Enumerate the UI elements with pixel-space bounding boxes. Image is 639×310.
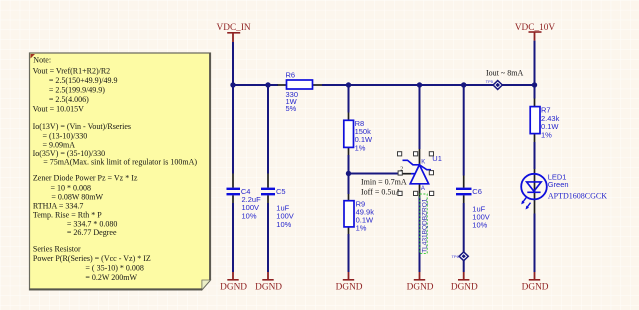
ground DGND (R9)	[336, 272, 363, 293]
wire VDC_10V vertical	[534, 41, 536, 85]
pin R9 top	[348, 194, 350, 201]
junction VDC_IN / C4	[230, 82, 235, 87]
svg-text:= 75mA(Max. sink limit of regu: = 75mA(Max. sink limit of regulator is 1…	[43, 157, 197, 166]
svg-text:RTHJA = 334.7: RTHJA = 334.7	[33, 202, 83, 211]
svg-text:K: K	[421, 160, 425, 166]
pin C6 bottom	[463, 195, 465, 203]
wire U1 branch upper	[419, 85, 421, 149]
wire C4 branch upper	[232, 85, 234, 174]
svg-text:DGND: DGND	[522, 283, 549, 293]
svg-text:= ( 35-10) * 0.008: = ( 35-10) * 0.008	[85, 264, 144, 273]
svg-text:APTD1608CGCK: APTD1608CGCK	[548, 192, 607, 201]
svg-text:Imin = 0.7mA: Imin = 0.7mA	[361, 178, 407, 187]
label U1 part number TL431BQDBZRQ1 (vertical, green)	[420, 194, 429, 254]
svg-text:DGND: DGND	[255, 283, 282, 293]
svg-text:= 10 * 0.008: = 10 * 0.008	[51, 183, 92, 192]
pin C5 top	[267, 174, 269, 188]
power port VDC_10V	[515, 23, 556, 41]
svg-text:DGND: DGND	[220, 283, 247, 293]
wire R8 to junction	[348, 155, 350, 174]
pin C6 top	[463, 176, 465, 188]
svg-text:Vout = Vref(R1+R2)/R2: Vout = Vref(R1+R2)/R2	[33, 66, 111, 75]
svg-text:Iout ~ 8mA: Iout ~ 8mA	[486, 68, 523, 77]
svg-text:1%: 1%	[356, 224, 367, 233]
svg-text:Ioff = 0.5uA: Ioff = 0.5uA	[361, 187, 401, 196]
svg-text:Power P(R(Series) = (Vcc - Vz): Power P(R(Series) = (Vcc - Vz) * IZ	[33, 254, 151, 263]
ground DGND (C4)	[220, 272, 247, 293]
svg-text:= (13-10)/330: = (13-10)/330	[43, 132, 88, 141]
capacitor C4	[227, 189, 241, 194]
svg-text:Series Resistor: Series Resistor	[33, 245, 81, 254]
pin U1 anode	[419, 184, 421, 197]
svg-text:Zener Diode Power Pz = Vz * Iz: Zener Diode Power Pz = Vz * Iz	[33, 174, 138, 183]
wire C6 branch upper	[463, 85, 465, 176]
junction R8	[346, 82, 351, 87]
svg-text:TP6: TP6	[451, 254, 459, 259]
note annotation (yellow sticky note)	[30, 53, 211, 290]
wire LED lower	[534, 214, 536, 273]
svg-text:1%: 1%	[541, 130, 552, 139]
svg-text:10%: 10%	[472, 221, 487, 230]
resistor R6	[287, 80, 313, 89]
svg-text:Green: Green	[548, 180, 569, 189]
wire main bus right segment	[322, 84, 535, 86]
svg-text:R6: R6	[286, 71, 296, 80]
wire R8 branch upper	[348, 85, 350, 113]
pin R6 left	[278, 84, 287, 86]
wire main bus left segment	[231, 84, 279, 86]
pin R7 top	[534, 99, 536, 107]
svg-text:DGND: DGND	[407, 283, 434, 293]
pin C4 top	[232, 174, 234, 188]
ground DGND (C5)	[255, 272, 282, 293]
wire C5 branch upper	[267, 85, 269, 174]
svg-text:Vout = 10.015V: Vout = 10.015V	[33, 105, 84, 114]
pin U1 ref (pin 2)	[402, 173, 411, 175]
wire C6 branch lower	[463, 203, 465, 272]
resistor R9	[344, 201, 354, 227]
capacitor C6	[456, 189, 472, 194]
svg-text:TL431BQDBZRQ1: TL431BQDBZRQ1	[421, 198, 428, 253]
power port VDC_IN	[217, 23, 251, 42]
wire R7 branch upper	[534, 85, 536, 99]
svg-text:= 2.5(150+49.9)/49.9: = 2.5(150+49.9)/49.9	[49, 76, 118, 85]
pin U1 cathode	[419, 149, 421, 165]
svg-text:TP5: TP5	[486, 79, 494, 84]
op-amp U1 TL431 shunt regulator symbol	[403, 160, 432, 184]
wire ref to U1	[349, 173, 403, 175]
svg-text:= 2.5(199.9/49.9): = 2.5(199.9/49.9)	[49, 86, 105, 95]
pin R9 bottom	[348, 227, 350, 234]
svg-text:= 26.77 Degree: = 26.77 Degree	[67, 228, 117, 237]
svg-text:10%: 10%	[276, 220, 291, 229]
U1 selection handles	[398, 152, 434, 196]
svg-text:DGND: DGND	[451, 283, 478, 293]
svg-text:Note:: Note:	[33, 55, 51, 64]
wire R9 lower	[348, 234, 350, 272]
resistor R7	[530, 107, 540, 134]
svg-text:5%: 5%	[286, 104, 297, 113]
wire C5 branch lower	[267, 203, 269, 272]
junction U1	[417, 82, 422, 87]
svg-text:C6: C6	[472, 187, 482, 196]
ground DGND (C6)	[451, 272, 478, 293]
pin R8 top	[348, 113, 350, 121]
capacitor C5	[261, 189, 275, 194]
pin C4 bottom	[232, 195, 234, 203]
ground DGND (LED1)	[522, 272, 549, 293]
wire U1 branch lower	[419, 197, 421, 273]
wire U1 lead ref	[411, 173, 415, 175]
svg-text:= 0.2W 200mW: = 0.2W 200mW	[85, 273, 137, 282]
svg-text:1%: 1%	[355, 143, 366, 152]
LED LED1	[521, 174, 547, 210]
resistor R8	[344, 120, 354, 147]
wire R7 to LED	[534, 142, 536, 169]
wire C4 branch lower	[232, 203, 234, 272]
svg-text:= 0.08W 80mW: = 0.08W 80mW	[51, 193, 103, 202]
svg-text:Temp. Rise = Rth * P: Temp. Rise = Rth * P	[33, 211, 102, 220]
svg-text:VDC_IN: VDC_IN	[217, 23, 251, 33]
junction VDC_10V / R7	[532, 82, 537, 87]
ground DGND (U1)	[407, 272, 434, 293]
pin R7 bottom	[534, 134, 536, 143]
test point TP6 on C6 branch	[451, 252, 468, 261]
svg-text:10%: 10%	[242, 211, 257, 220]
wire VDC_IN vertical	[232, 42, 234, 85]
wire junction to R9	[348, 174, 350, 195]
svg-text:A: A	[421, 186, 425, 192]
svg-text:Io(13V) = (Vin - Vout)/Rseries: Io(13V) = (Vin - Vout)/Rseries	[33, 122, 131, 131]
junction C6	[461, 82, 466, 87]
pin LED1 vertical	[534, 169, 536, 214]
pin R6 right	[313, 84, 323, 86]
pin R8 bottom	[348, 147, 350, 155]
test point TP5 on bus	[486, 79, 503, 90]
svg-text:C5: C5	[276, 187, 286, 196]
junction C5	[265, 82, 270, 87]
svg-text:= 2.5(4.006): = 2.5(4.006)	[49, 95, 89, 104]
junction R8/R9/ref	[346, 171, 351, 176]
svg-text:DGND: DGND	[336, 283, 363, 293]
pin C5 bottom	[267, 195, 269, 203]
